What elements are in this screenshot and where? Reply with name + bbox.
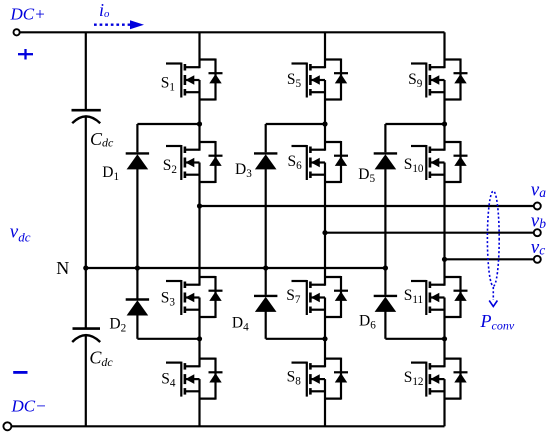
svg-text:DC+: DC+ [10,5,46,24]
svg-text:N: N [56,258,69,278]
svg-text:DC−: DC− [11,397,47,416]
